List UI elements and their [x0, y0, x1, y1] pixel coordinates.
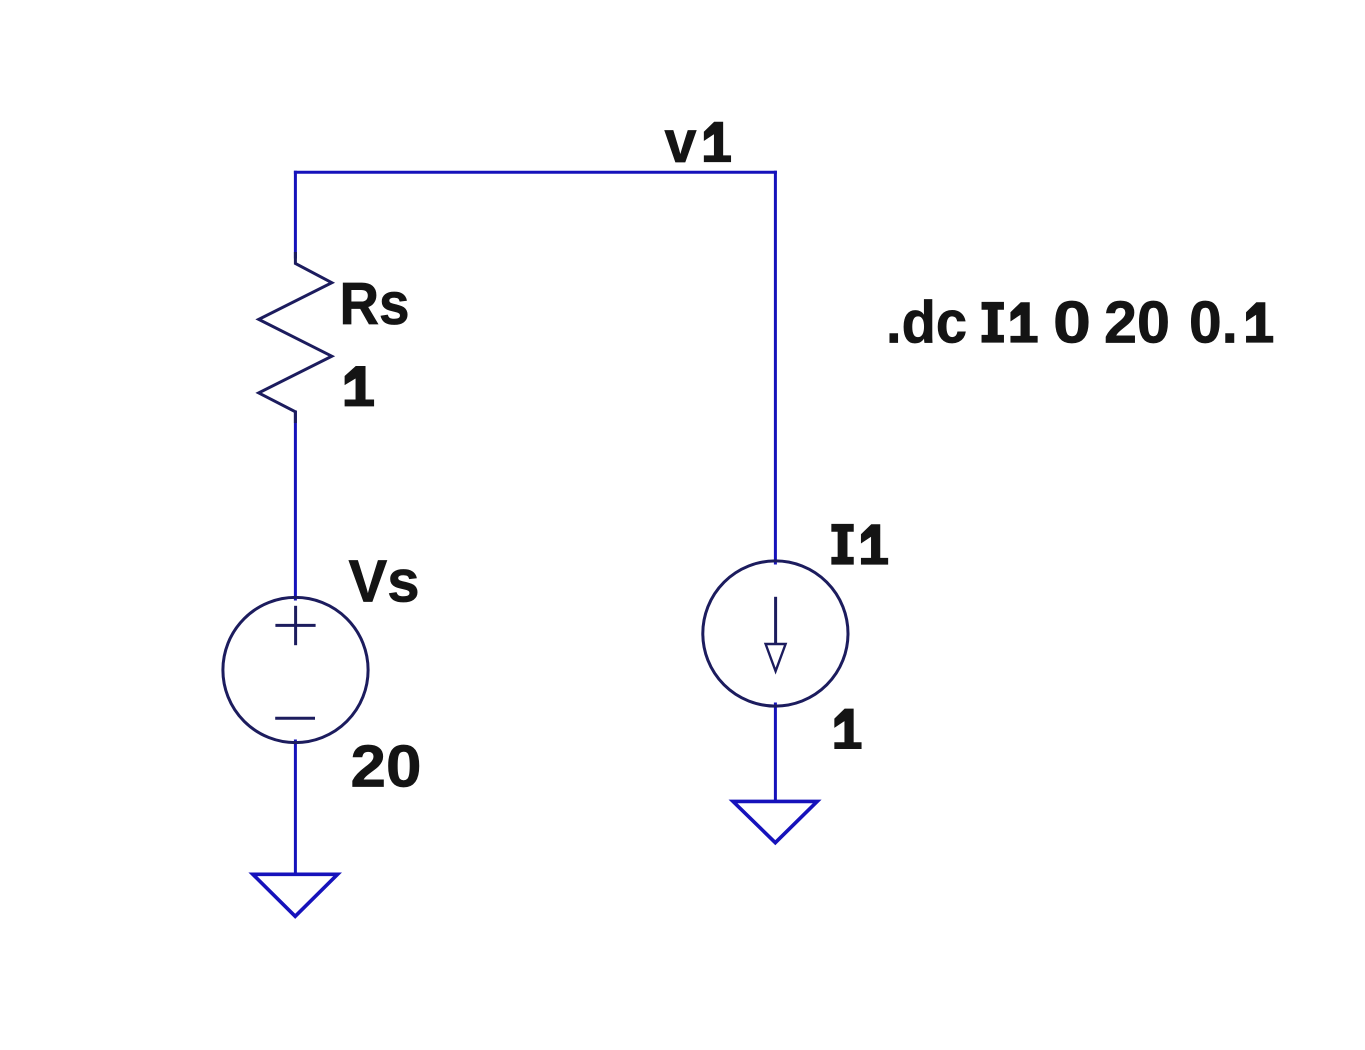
svg-text:.dc: .dc [886, 289, 967, 355]
svg-text:20: 20 [1104, 289, 1170, 355]
svg-text:20: 20 [351, 734, 422, 800]
svg-text:0: 0 [1053, 289, 1091, 355]
svg-text:v: v [665, 109, 697, 175]
svg-text:Rs: Rs [340, 271, 410, 337]
svg-text:Vs: Vs [349, 548, 420, 614]
svg-text:0.: 0. [1189, 289, 1238, 355]
